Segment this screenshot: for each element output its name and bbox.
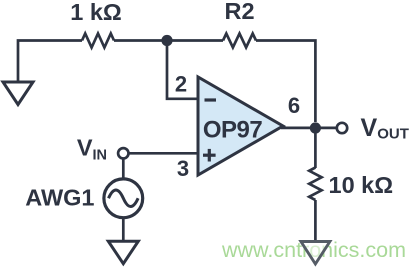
svg-text:3: 3 bbox=[177, 156, 189, 181]
ground GND1 top-left bbox=[3, 82, 33, 105]
wire bbox=[314, 128, 317, 168]
resistor R3 zigzag vertical bbox=[309, 168, 321, 201]
op-amp plus input symbol bbox=[203, 149, 216, 162]
wire bbox=[18, 41, 82, 83]
svg-text:IN: IN bbox=[93, 148, 108, 164]
wire bbox=[122, 219, 125, 241]
resistor R1 zigzag bbox=[82, 34, 114, 48]
node output junction bbox=[310, 122, 321, 133]
node junction A bbox=[161, 35, 172, 46]
svg-text:OP97: OP97 bbox=[203, 116, 263, 143]
wire bbox=[281, 127, 336, 130]
svg-text:2: 2 bbox=[175, 72, 187, 97]
svg-text:6: 6 bbox=[288, 93, 300, 118]
svg-text:AWG1: AWG1 bbox=[25, 185, 94, 211]
svg-text:V: V bbox=[77, 135, 93, 161]
resistor R2 zigzag bbox=[223, 34, 256, 48]
wire bbox=[129, 152, 198, 155]
svg-text:10 kΩ: 10 kΩ bbox=[329, 172, 394, 198]
wire bbox=[122, 159, 125, 177]
svg-text:1 kΩ: 1 kΩ bbox=[70, 0, 122, 25]
wire bbox=[167, 41, 198, 99]
ground GND3 bottom-right bbox=[301, 242, 330, 265]
terminal VOUT circle bbox=[337, 123, 347, 133]
op-amp U1 triangle bbox=[198, 77, 283, 175]
svg-text:R2: R2 bbox=[224, 0, 254, 24]
terminal VIN circle bbox=[118, 148, 128, 158]
op-amp minus input symbol bbox=[205, 98, 217, 101]
wire bbox=[314, 200, 317, 242]
ground GND2 below AWG1 bbox=[108, 241, 138, 264]
svg-text:VOUT: VOUT bbox=[361, 114, 409, 143]
wire bbox=[114, 39, 223, 42]
wire bbox=[256, 41, 315, 123]
source AWG1 sine generator bbox=[104, 179, 143, 218]
